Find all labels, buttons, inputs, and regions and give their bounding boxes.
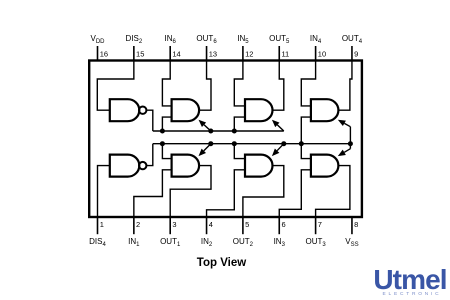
pin 11 stub (278, 46, 280, 61)
svg-text:14: 14 (172, 50, 180, 59)
wire DIS2 pin15 to inverter A input (97, 61, 134, 111)
pin 10 stub (315, 46, 317, 61)
junction bus A / gate 6 input (160, 129, 165, 134)
pin 12 stub (242, 46, 244, 61)
svg-text:IN3: IN3 (274, 237, 286, 248)
bus A (row1 disable net) (153, 130, 284, 132)
svg-text:OUT5: OUT5 (269, 34, 290, 45)
wire DIS4 pin1 to inverter B input (98, 166, 110, 217)
wire IN4 pin to gate 4 input (301, 61, 315, 106)
wire bus A to gate 6 lower input (162, 117, 171, 131)
svg-text:2: 2 (136, 220, 140, 229)
svg-text:VSS: VSS (345, 237, 358, 248)
pin 16 stub (97, 46, 99, 61)
3-state control arrow gate 1 (204, 144, 211, 151)
pin 3 stub (169, 217, 171, 234)
svg-text:OUT1: OUT1 (160, 237, 181, 248)
wire bus B to gate 1 upper input (162, 144, 171, 159)
buffer gate 5 body (245, 99, 273, 121)
svg-text:OUT3: OUT3 (305, 237, 326, 248)
wire IN6 pin to gate 6 input (162, 61, 171, 106)
3-state control arrow gate 4 (349, 127, 351, 144)
wire gate 2 output to OUT2 pin (243, 166, 284, 217)
junction bus B / col3 riser (299, 141, 304, 146)
junction bus B / gate 2 arrow (281, 141, 286, 146)
svg-text:15: 15 (136, 50, 144, 59)
pin 6 stub (278, 217, 280, 234)
svg-text:OUT6: OUT6 (196, 34, 217, 45)
IC body U1 outline (89, 61, 362, 218)
pin 14 stub (169, 46, 171, 61)
pin 4 stub (206, 217, 208, 234)
svg-text:11: 11 (281, 50, 289, 59)
wire gate 4 output to OUT4 pin (338, 61, 352, 111)
svg-text:Utmel: Utmel (373, 264, 446, 295)
wire inverter B output to bus B (146, 144, 152, 166)
junction bus B / gate 1 input (160, 141, 165, 146)
svg-text:IN4: IN4 (310, 34, 322, 45)
wire inverter A output to bus A (146, 110, 152, 131)
3-state control arrow gate 5 (277, 125, 283, 131)
pin 13 stub (206, 46, 208, 61)
wire bus A to gate 5 lower input (234, 117, 245, 131)
wire IN5 pin to gate 5 input (234, 61, 245, 106)
3-state control arrow gate 3 (349, 144, 351, 149)
pin 8 stub (351, 217, 353, 234)
svg-text:10: 10 (318, 50, 326, 59)
wire gate 3 output to OUT3 pin (316, 166, 350, 217)
svg-text:1: 1 (100, 220, 104, 229)
svg-text:DIS4: DIS4 (89, 237, 106, 248)
buffer gate 3 body (311, 155, 339, 177)
buffer gate 4 body (311, 99, 339, 121)
pin 5 stub (242, 217, 244, 234)
wire gate 5 output to OUT5 pin (273, 61, 284, 111)
buffer gate 2 body (245, 155, 273, 177)
svg-text:5: 5 (245, 220, 249, 229)
wire IN3 pin to gate 3 input (279, 170, 311, 217)
svg-text:9: 9 (354, 50, 358, 59)
buffer gate 1 body (172, 155, 200, 177)
wire gate 6 output to OUT6 pin (199, 61, 211, 111)
inverter A output bubble (139, 107, 146, 114)
wire bus B riser to gate 4 lower input (301, 117, 311, 144)
svg-text:12: 12 (245, 50, 253, 59)
pin 2 stub (133, 217, 135, 234)
wire gate 1 output to OUT1 pin (170, 166, 211, 217)
pin 7 stub (315, 217, 317, 234)
wire bus B to gate 3 upper input (301, 144, 311, 159)
wire bus B to gate 2 upper input (234, 144, 245, 159)
inverter B (DIS4 buffer) body (110, 155, 140, 177)
junction bus B / gate 2 input (232, 141, 237, 146)
wire IN2 pin to gate 2 input (207, 170, 245, 217)
svg-text:OUT4: OUT4 (342, 34, 363, 45)
inverter B output bubble (139, 162, 146, 169)
3-state control arrow gate 6 (204, 125, 211, 131)
svg-text:DIS2: DIS2 (126, 34, 143, 45)
junction bus A / gate 6 arrow (208, 129, 213, 134)
bus B (row2+gate4 disable net) (153, 143, 351, 145)
svg-text:16: 16 (100, 50, 108, 59)
junction bus B / gate 1 arrow (208, 141, 213, 146)
svg-text:3: 3 (172, 220, 176, 229)
inverter A (DIS2 buffer) body (110, 99, 140, 121)
pin 15 stub (133, 46, 135, 61)
svg-text:13: 13 (209, 50, 217, 59)
svg-text:IN1: IN1 (128, 237, 140, 248)
svg-text:ELECTRONIC: ELECTRONIC (383, 291, 442, 297)
svg-text:IN5: IN5 (237, 34, 249, 45)
svg-text:Top View: Top View (197, 257, 246, 269)
junction bus A / gate 5 input (232, 129, 237, 134)
3-state control arrow gate 2 (277, 144, 284, 151)
wire IN1 pin to gate 1 input (134, 170, 172, 217)
junction bus B end / gate3-gate4 arrows (348, 141, 353, 146)
buffer gate 6 body (172, 99, 200, 121)
svg-text:8: 8 (354, 220, 358, 229)
pin 1 stub (97, 217, 99, 234)
svg-text:IN6: IN6 (165, 34, 177, 45)
svg-text:IN2: IN2 (201, 237, 213, 248)
pin 9 stub (351, 46, 353, 61)
svg-text:4: 4 (209, 220, 213, 229)
svg-text:6: 6 (281, 220, 285, 229)
svg-text:7: 7 (318, 220, 322, 229)
svg-text:OUT2: OUT2 (233, 237, 254, 248)
svg-text:VDD: VDD (90, 34, 105, 45)
